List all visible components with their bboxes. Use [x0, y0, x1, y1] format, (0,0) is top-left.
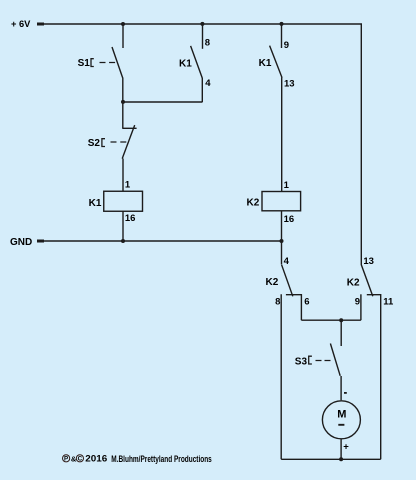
svg-text:P: P [64, 456, 68, 463]
svg-text:8: 8 [275, 297, 280, 308]
svg-text:13: 13 [284, 78, 295, 89]
svg-text:C: C [78, 456, 83, 463]
svg-text:9: 9 [355, 297, 360, 308]
svg-text:+: + [343, 442, 349, 453]
svg-text:2016: 2016 [85, 454, 107, 464]
svg-text:1: 1 [284, 180, 290, 191]
svg-text:16: 16 [284, 214, 295, 225]
svg-text:K1: K1 [259, 58, 272, 69]
svg-text:GND: GND [10, 237, 32, 248]
svg-text:4: 4 [284, 256, 290, 267]
svg-text:M.Bluhm/Prettyland Productions: M.Bluhm/Prettyland Productions [111, 454, 212, 464]
svg-text:16: 16 [125, 213, 136, 224]
svg-text:+ 6V: + 6V [11, 19, 31, 29]
svg-text:11: 11 [383, 297, 394, 308]
svg-text:K1: K1 [179, 58, 192, 69]
svg-text:K2: K2 [266, 277, 279, 288]
svg-text:4: 4 [205, 78, 211, 89]
svg-text:6: 6 [304, 297, 309, 308]
svg-text:S2: S2 [88, 138, 101, 149]
svg-text:9: 9 [284, 40, 289, 51]
svg-text:M: M [337, 409, 346, 421]
svg-text:K2: K2 [347, 278, 360, 289]
svg-text:1: 1 [125, 180, 131, 191]
svg-text:13: 13 [363, 256, 374, 267]
svg-text:K1: K1 [89, 198, 102, 209]
svg-text:S1: S1 [78, 58, 91, 69]
svg-text:8: 8 [205, 37, 210, 48]
svg-text:K2: K2 [247, 198, 260, 209]
svg-text:S3: S3 [295, 356, 308, 367]
